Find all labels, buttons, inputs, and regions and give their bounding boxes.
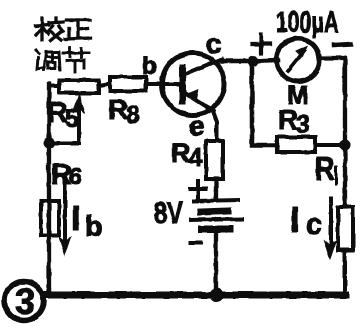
figure number 3	[5, 281, 44, 322]
svg-text:3: 3	[15, 281, 35, 322]
label 调节 (adjust)	[36, 48, 89, 72]
wire: R5 wiper arm with arrow	[49, 94, 85, 143]
wire: collector to meter node	[222, 59, 253, 64]
svg-text:3: 3	[296, 111, 310, 139]
wire: left vertical rail	[47, 84, 51, 295]
wire: R3 right lead	[315, 143, 345, 147]
resistor R3 (shunt)	[277, 137, 315, 152]
node: R3/right-rail junction	[340, 140, 351, 151]
wire: meter left branch down to R3	[252, 61, 277, 145]
label 校正 (calibration)	[36, 18, 91, 40]
resistor R6	[41, 201, 59, 235]
svg-text:c: c	[206, 28, 222, 59]
svg-text:I: I	[71, 200, 80, 238]
wire: emitter to R4	[213, 111, 217, 141]
arrow Ic	[324, 198, 336, 259]
label + (battery)	[190, 181, 206, 197]
arrow Ib	[59, 178, 71, 255]
resistor R5 (potentiometer body)	[49, 80, 110, 93]
node: collector/meter junction	[248, 56, 259, 67]
node: battery/bottom-rail junction	[210, 288, 224, 302]
svg-text:100µA: 100µA	[276, 6, 339, 39]
battery 8V	[191, 200, 242, 229]
label + (meter polarity)	[252, 35, 270, 53]
svg-text:4: 4	[188, 142, 203, 172]
svg-text:8V: 8V	[154, 195, 183, 230]
svg-text:e: e	[189, 110, 205, 141]
wire: bottom rail	[46, 292, 346, 299]
svg-text:R: R	[315, 152, 335, 188]
resistor R8	[110, 77, 163, 91]
meter M (100uA)	[277, 39, 320, 82]
svg-text:b: b	[142, 52, 157, 80]
wire: junction to meter	[253, 60, 278, 61]
svg-text:6: 6	[69, 163, 82, 189]
label - (meter polarity)	[334, 44, 351, 45]
svg-text:I: I	[290, 199, 300, 240]
resistor R4	[206, 141, 223, 179]
svg-text:8: 8	[126, 101, 140, 129]
wire: meter right to right rail	[319, 58, 345, 145]
wire: R4 to battery	[214, 179, 218, 199]
transistor Q1 (PNP)	[162, 53, 224, 115]
svg-text:c: c	[306, 209, 322, 241]
svg-text:b: b	[85, 211, 103, 243]
resistor Rl (load)	[338, 145, 353, 295]
label - (battery)	[190, 241, 201, 245]
node: wiper junction on left rail	[44, 138, 55, 149]
wire: battery to bottom rail	[214, 233, 218, 295]
